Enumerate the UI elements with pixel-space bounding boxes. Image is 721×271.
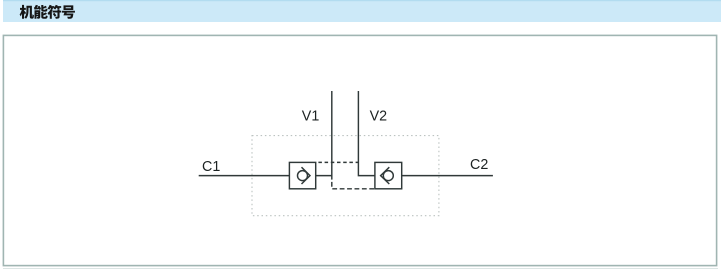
header bar top edge	[3, 0, 721, 1]
svg-text:C2: C2	[470, 157, 488, 173]
check valve CV1 ball	[298, 171, 308, 181]
check valve CV1 body	[289, 162, 315, 188]
wire C2 main line right segment	[402, 175, 493, 177]
wire V1 vertical line	[331, 91, 333, 180]
wire V2 vertical line with bend to right valve	[358, 91, 375, 176]
check valve CV2 body	[375, 162, 402, 188]
title 机能符号	[20, 5, 75, 19]
pilot dashed line top (left valve to V2 line)	[316, 161, 359, 163]
wire C1 main line left segment	[199, 175, 290, 177]
check valve CV2 ball	[383, 171, 393, 181]
pilot dashed line bottom (V1 line to right valve corner)	[332, 182, 375, 189]
svg-text:V1: V1	[302, 109, 320, 125]
check valve CV2 seat	[381, 167, 390, 184]
header bar	[3, 0, 721, 22]
footer line	[3, 268, 718, 269]
svg-text:C1: C1	[202, 159, 220, 175]
wire between left valve and V1 line	[316, 175, 332, 177]
dashed enclosure box	[252, 136, 439, 216]
check valve CV1 seat	[302, 167, 311, 184]
svg-text:V2: V2	[370, 109, 388, 125]
